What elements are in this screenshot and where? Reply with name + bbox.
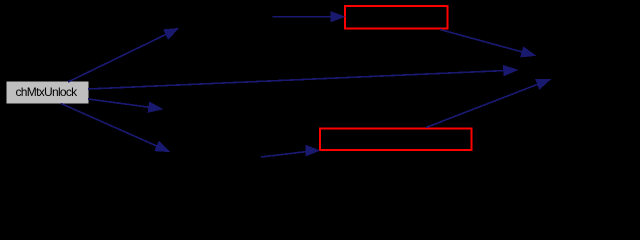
edge b: upper hidden node to top red box — [273, 12, 345, 22]
node chMtxUnlock (gray box) — [7, 82, 89, 104]
svg-text:chMtxUnlock: chMtxUnlock — [16, 85, 79, 99]
edge f: chMtxUnlock to lower hidden node — [61, 104, 169, 152]
edge h: bottom red box to right hidden node — [426, 80, 550, 128]
edge d: chMtxUnlock long arrow to right hidden node — [88, 66, 517, 89]
edge a: chMtxUnlock to upper hidden node — [68, 29, 178, 83]
edge c: top red box to right hidden node — [440, 30, 535, 57]
edge e: chMtxUnlock short arrow right-down — [88, 99, 162, 112]
node top (red box, text hidden) — [345, 6, 448, 29]
node bottom (red box, text hidden) — [320, 129, 472, 151]
edge g: lower hidden node to bottom red box — [261, 145, 319, 157]
